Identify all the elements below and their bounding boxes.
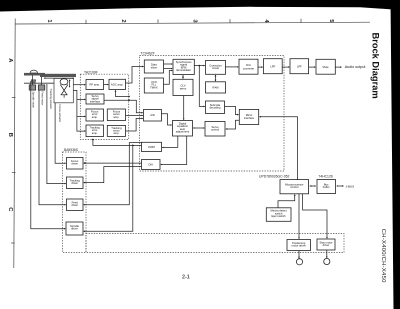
block bus buffer [317, 180, 336, 194]
svg-text:slicer: slicer [151, 65, 157, 69]
node focus driver junction [84, 162, 86, 164]
svg-text:Mute: Mute [323, 65, 329, 69]
wire subcode decoding to micro interface [225, 106, 239, 114]
wire digital equalizer to D/A [161, 136, 187, 165]
wire spindle motor feed line [31, 81, 66, 229]
svg-text:Spindle motor: Spindle motor [31, 92, 35, 109]
wire LPF1 to LPF2 [282, 66, 289, 68]
block correction circuit [206, 61, 226, 75]
page black top bar (frame) [0, 0, 400, 12]
wire focus actuator line [55, 103, 66, 163]
wire micro interface to servo control [226, 120, 240, 129]
block data slicer [144, 60, 163, 73]
svg-text:amp.: amp. [92, 116, 98, 119]
svg-text:demodulator: demodulator [176, 68, 191, 72]
mechanism unit dashed corridor [86, 234, 344, 253]
wire CLV servo to digital equalizer [183, 96, 185, 120]
svg-text:D/A: D/A [148, 163, 153, 167]
block LPF 2 [290, 59, 309, 74]
block D/A [142, 160, 161, 170]
wire VCO to EFM [164, 71, 173, 85]
wire AGC control pin [116, 90, 130, 96]
wire focus servo amp to A/D [126, 114, 143, 116]
block stay motor driver [317, 239, 335, 250]
block tracking error amp [86, 125, 104, 137]
block PWM [142, 142, 162, 151]
svg-text:D/A: D/A [246, 63, 251, 67]
svg-text:BA5936S: BA5936S [64, 148, 79, 152]
block focus driver [67, 158, 84, 170]
wire mute to audio output [335, 66, 341, 68]
svg-text:RF amp.: RF amp. [90, 83, 101, 87]
node AGC pin on TA2109F edge [128, 96, 130, 98]
block positioning motor driver [287, 240, 311, 251]
wire bus to servo interface [77, 98, 85, 100]
svg-text:Tracking actuator: Tracking actuator [49, 89, 53, 110]
wire correction to RAM [215, 75, 217, 81]
block mute [316, 59, 335, 74]
block AGC amp [109, 79, 126, 89]
wire microprocessor to stay driver [303, 194, 327, 239]
svg-text:Feed motor: Feed motor [41, 92, 45, 106]
wire EFM branch to subcode decoding [199, 66, 205, 107]
block A/D [144, 110, 162, 122]
block microprocessor control [280, 180, 309, 194]
svg-text:driver: driver [71, 203, 78, 207]
block servo control [205, 122, 225, 137]
pickup lens [60, 79, 68, 85]
svg-text:converter: converter [243, 66, 254, 70]
svg-text:TC9462F: TC9462F [141, 52, 155, 56]
wire tracking servo amp to A/D [126, 118, 143, 131]
tracking direction arrow [44, 77, 74, 79]
wire A/D to digital equalizer [162, 114, 172, 125]
svg-text:circuit: circuit [212, 66, 219, 70]
block micro interface [239, 109, 258, 124]
svg-text:LPF: LPF [270, 65, 275, 69]
motor M positioning [296, 259, 302, 265]
wire positioning driver to motor [298, 251, 300, 259]
wire microprocessor to micro interface [259, 117, 297, 180]
svg-text:servo: servo [180, 86, 187, 90]
node EFM branch junction [198, 65, 200, 67]
block focus servo amp [107, 109, 125, 121]
wire data slicer to EFM (data) [164, 63, 173, 65]
svg-text:control: control [290, 185, 298, 189]
wire digital equalizer to PWM [162, 136, 178, 147]
wire D/A to focus driver [84, 162, 142, 164]
svg-text:driver: driver [71, 227, 78, 231]
block feed driver [67, 199, 84, 211]
wire EFM to correction circuit [194, 65, 205, 67]
block EFM demodulator [173, 59, 194, 74]
IC TA2109F dashed box [80, 70, 128, 139]
svg-text:control: control [211, 128, 219, 132]
svg-text:Audio output: Audio output [345, 65, 366, 69]
wire digital equalizer to servo control [193, 127, 204, 129]
motor M stay [324, 258, 330, 264]
IC BA5936S dashed box [63, 148, 87, 253]
wire bus to focus error amp [77, 115, 85, 117]
block digital equalizer auto adjustment [173, 121, 193, 137]
wire stay driver to motor [326, 250, 328, 258]
wire pickup signal bus [73, 90, 85, 131]
block spindle driver [66, 222, 83, 235]
wire servo interface to A/D [104, 100, 143, 113]
svg-text:J-BUS: J-BUS [346, 185, 355, 189]
svg-text:amp.: amp. [113, 132, 119, 135]
svg-text:A/D: A/D [150, 113, 155, 117]
wire microprocessor to positioning driver [298, 194, 300, 239]
grid ruler [11, 19, 370, 269]
block servo signal interface [86, 94, 104, 104]
wire tracking actuator line [47, 84, 66, 184]
wire LPF2 to mute [309, 66, 316, 68]
svg-text:AGC amp.: AGC amp. [111, 82, 124, 86]
svg-text:adjustment: adjustment [176, 130, 189, 134]
svg-text:buffer: buffer [323, 185, 330, 189]
block LPF 1 [263, 59, 282, 74]
svg-text:driver: driver [71, 181, 78, 185]
wire bus buffer to J-BUS [337, 185, 344, 187]
chassis rail line [24, 82, 54, 84]
block focus error amp [86, 109, 104, 121]
pickup cone [60, 85, 68, 98]
svg-text:Focus actuator: Focus actuator [58, 105, 62, 123]
wire PWM to feed driver [84, 143, 142, 205]
node TA2109F bottom pin junction [92, 139, 94, 141]
wire feed motor line [39, 90, 66, 205]
svg-text:Eject switch: Eject switch [271, 214, 286, 218]
node PWM branch junction [132, 145, 134, 147]
wire D/A converter to LPF1 [258, 66, 263, 68]
wire microprocessor to bus buffer [310, 185, 316, 187]
spindle motor [29, 76, 36, 91]
disc hub [30, 70, 38, 73]
IC TC9462F dashed box [140, 52, 285, 171]
block mecha detect switch [266, 208, 291, 222]
wire D/A to tracking driver [84, 167, 142, 183]
disc platter bar [24, 73, 76, 77]
block D/A converter [239, 59, 258, 74]
svg-text:UPD789026GC-052: UPD789026GC-052 [259, 174, 289, 178]
wire RF amp to AGC amp [104, 84, 109, 86]
svg-text:Brock Diagram: Brock Diagram [371, 33, 381, 99]
page black right bar (frame) [391, 0, 400, 309]
svg-text:driver: driver [71, 162, 78, 166]
wire AGC amp to data slicer [126, 67, 144, 84]
svg-text:amp.: amp. [92, 132, 98, 135]
wire mecha switch to microprocessor [278, 195, 295, 208]
svg-text:74HC126: 74HC126 [318, 174, 332, 178]
svg-text:amp.: amp. [113, 116, 119, 119]
svg-text:interface: interface [90, 99, 101, 103]
wire pickup to RF amp [73, 84, 85, 86]
focus direction arrow [69, 80, 71, 88]
block RAM [206, 82, 226, 93]
wire EFM to CLV servo [182, 75, 184, 78]
svg-text:TMAX: TMAX [150, 85, 158, 89]
svg-text:LPF: LPF [297, 65, 302, 69]
block VCO 1/2 TMAX [144, 78, 163, 93]
svg-text:B: B [7, 133, 13, 137]
node servo interface line crossing [128, 99, 130, 101]
wire PWM branch to spindle driver [84, 145, 133, 231]
svg-text:CH-X400/CH-X450: CH-X400/CH-X450 [380, 229, 386, 283]
wire PWM to TA2109F pin [93, 140, 142, 146]
block RF amp [86, 80, 104, 90]
svg-text:driver: driver [323, 243, 330, 247]
svg-text:2: 2 [120, 19, 126, 22]
spindle platform [31, 80, 36, 84]
svg-text:PWM: PWM [148, 145, 155, 149]
block subcode decoding [206, 101, 225, 114]
block CLV servo [173, 79, 193, 95]
svg-text:RAM: RAM [213, 85, 220, 89]
feed motor [38, 77, 45, 91]
pickup box [54, 78, 73, 102]
svg-text:2-1: 2-1 [182, 275, 190, 281]
svg-text:decoding: decoding [210, 106, 221, 110]
svg-text:TA2109F: TA2109F [84, 70, 98, 74]
block tracking servo amp [107, 125, 125, 136]
svg-text:motor driver: motor driver [292, 244, 306, 248]
svg-text:interface: interface [244, 116, 255, 120]
wire data slicer to EFM (clock) [164, 68, 173, 70]
wire correction to D/A converter [226, 66, 239, 68]
block tracking driver [67, 177, 84, 189]
